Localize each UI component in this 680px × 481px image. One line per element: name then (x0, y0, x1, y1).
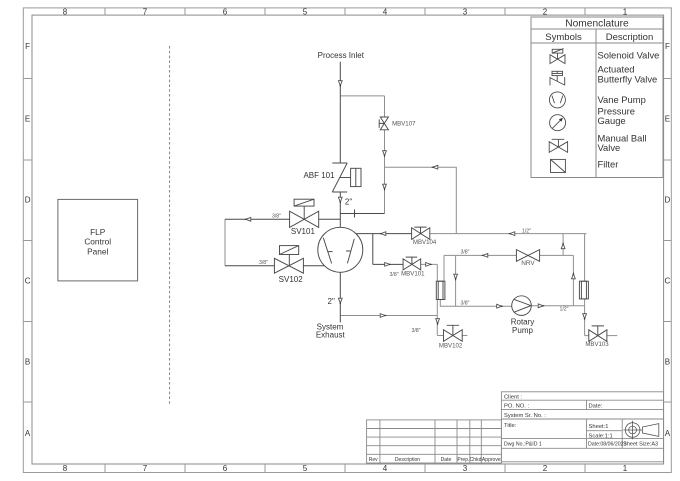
svg-text:2: 2 (543, 7, 548, 16)
svg-text:Process Inlet: Process Inlet (318, 51, 365, 60)
svg-text:5: 5 (303, 464, 308, 473)
svg-text:4: 4 (383, 7, 388, 16)
svg-text:Control: Control (84, 237, 111, 247)
svg-text:3/8": 3/8" (390, 272, 399, 278)
svg-text:B: B (25, 358, 30, 367)
svg-text:3/8": 3/8" (272, 214, 281, 220)
svg-text:7: 7 (143, 7, 148, 16)
svg-text:3/8": 3/8" (460, 250, 469, 256)
svg-text:D: D (665, 196, 671, 205)
svg-text:2": 2" (328, 297, 335, 306)
svg-text:MBV102: MBV102 (439, 343, 463, 350)
svg-text:C: C (665, 277, 671, 286)
svg-text:4: 4 (383, 464, 388, 473)
svg-text:Description: Description (606, 32, 654, 43)
svg-text:SV102: SV102 (279, 275, 304, 284)
svg-text:7: 7 (143, 464, 148, 473)
svg-text:1: 1 (623, 464, 628, 473)
svg-text:3/8": 3/8" (411, 328, 420, 334)
svg-text:A: A (665, 429, 671, 438)
svg-text:1: 1 (623, 7, 628, 16)
svg-text:Solenoid Valve: Solenoid Valve (598, 49, 660, 60)
svg-text:F: F (665, 42, 670, 51)
svg-text:PO. NO. :: PO. NO. : (504, 404, 530, 410)
svg-text:3: 3 (463, 7, 468, 16)
svg-text:2": 2" (345, 198, 352, 207)
svg-text:Approve: Approve (482, 457, 501, 463)
svg-text:MBV103: MBV103 (585, 341, 609, 348)
svg-text:System Sr. No. :: System Sr. No. : (504, 413, 546, 419)
svg-text:3/8": 3/8" (259, 260, 268, 266)
svg-text:Sheet Size:A3: Sheet Size:A3 (623, 442, 658, 448)
svg-text:Pump: Pump (512, 326, 533, 335)
svg-text:1/2": 1/2" (522, 229, 531, 235)
svg-text:Valve: Valve (598, 142, 621, 153)
svg-text:ABF 101: ABF 101 (303, 171, 335, 180)
svg-text:FLP: FLP (90, 227, 106, 237)
svg-text:Title:: Title: (504, 423, 517, 429)
svg-text:Rev: Rev (369, 457, 378, 463)
svg-text:F: F (25, 42, 30, 51)
svg-text:Chkd: Chkd (470, 457, 482, 463)
svg-text:1/2": 1/2" (559, 307, 568, 313)
svg-text:Dwg No.:P&ID 1: Dwg No.:P&ID 1 (504, 441, 542, 447)
svg-text:3: 3 (463, 464, 468, 473)
svg-text:NRV: NRV (521, 260, 535, 267)
svg-text:Symbols: Symbols (545, 32, 582, 43)
svg-text:Sheet:1: Sheet:1 (589, 424, 609, 430)
svg-text:8: 8 (63, 464, 68, 473)
svg-text:Filter: Filter (598, 158, 619, 169)
svg-text:Date:08/06/2023: Date:08/06/2023 (588, 442, 626, 448)
svg-text:Butterfly Valve: Butterfly Valve (598, 73, 658, 84)
svg-text:MBV101: MBV101 (401, 271, 425, 278)
svg-text:Date: Date (441, 457, 452, 463)
svg-text:A: A (25, 429, 31, 438)
svg-text:Client :: Client : (504, 394, 522, 400)
svg-text:C: C (25, 277, 31, 286)
svg-text:Panel: Panel (87, 246, 108, 256)
svg-text:B: B (665, 358, 670, 367)
svg-text:Vane Pump: Vane Pump (598, 94, 646, 105)
svg-text:6: 6 (223, 7, 228, 16)
svg-text:5: 5 (303, 7, 308, 16)
svg-text:3/8": 3/8" (460, 300, 469, 306)
svg-text:MBV104: MBV104 (413, 239, 437, 246)
svg-text:Nomenclature: Nomenclature (565, 18, 629, 29)
svg-text:E: E (665, 115, 670, 124)
svg-text:D: D (25, 196, 31, 205)
svg-text:E: E (25, 115, 30, 124)
svg-text:Date:: Date: (589, 404, 603, 410)
svg-text:Prep.: Prep. (457, 457, 469, 463)
svg-text:Gauge: Gauge (598, 115, 626, 126)
svg-text:Description: Description (395, 457, 420, 463)
svg-text:8: 8 (63, 7, 68, 16)
svg-text:SV101: SV101 (291, 227, 316, 236)
svg-text:Exhaust: Exhaust (316, 331, 346, 340)
svg-text:MBV107: MBV107 (392, 120, 416, 127)
svg-text:Scale:1:1: Scale:1:1 (589, 433, 613, 439)
svg-text:6: 6 (223, 464, 228, 473)
svg-text:2: 2 (543, 464, 548, 473)
